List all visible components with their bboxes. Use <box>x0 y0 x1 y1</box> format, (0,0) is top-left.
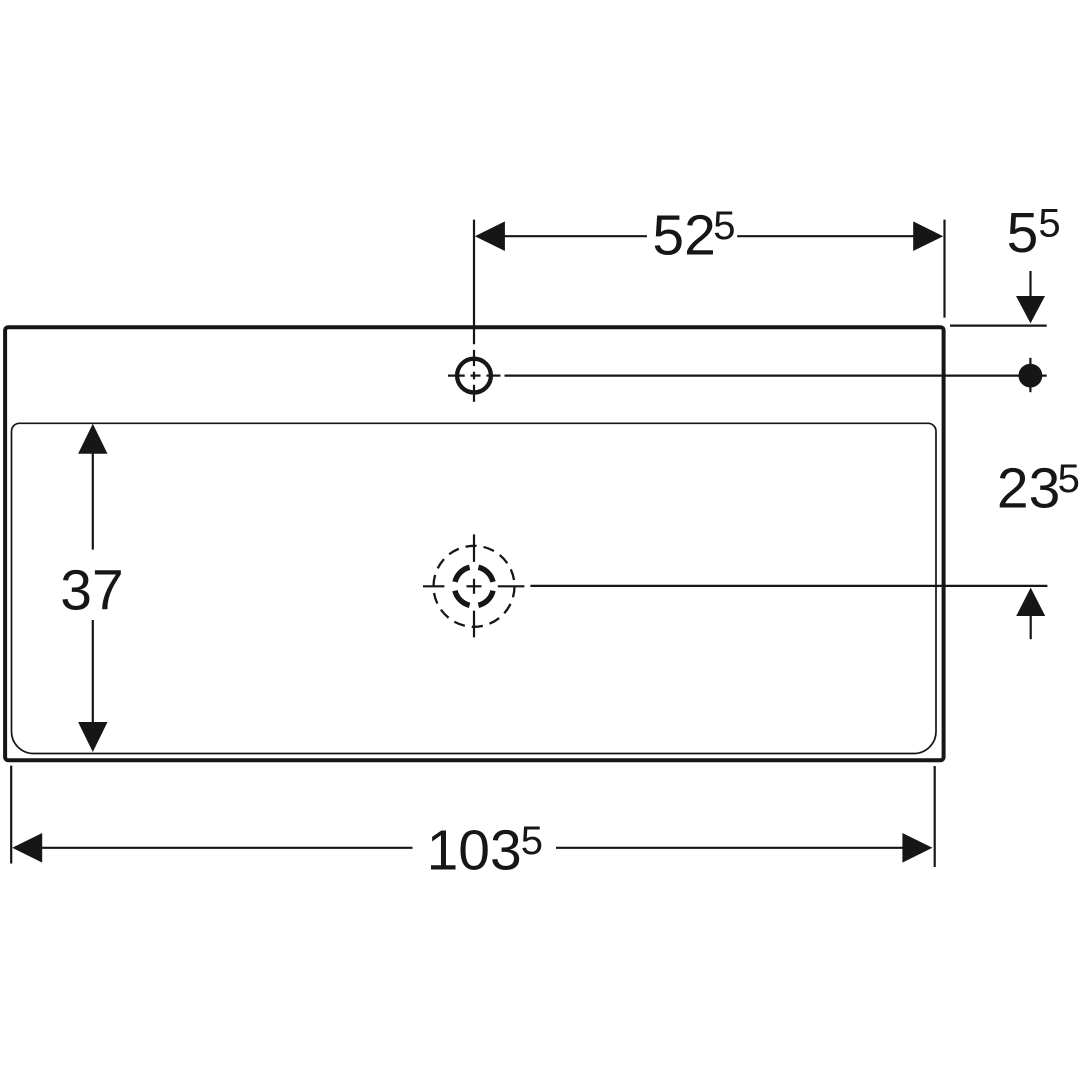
dimension 37 line <box>92 452 94 724</box>
svg-text:52: 52 <box>652 204 715 268</box>
drain outer dashed circle <box>434 546 515 627</box>
basin outer outline <box>5 327 944 760</box>
svg-text:103: 103 <box>427 818 522 882</box>
faucet hole circle <box>457 359 491 393</box>
dimension 5.5 arrow <box>1016 271 1045 323</box>
dimension 103.5 left extension line <box>10 766 12 864</box>
dimension 52.5 line <box>503 235 915 237</box>
dimension 52.5 left extension line (through faucet) <box>943 220 945 318</box>
svg-text:37: 37 <box>60 559 123 623</box>
svg-text:23: 23 <box>997 457 1060 521</box>
svg-text:5: 5 <box>713 204 735 248</box>
dimension 23.5 arrow <box>1016 588 1045 640</box>
dimension 37 label <box>60 559 123 623</box>
dimension 37 down arrow <box>78 722 107 752</box>
drain vertical centerline <box>473 534 475 637</box>
basin inner bowl outline <box>12 423 937 753</box>
dimension 37 up arrow <box>78 424 107 454</box>
svg-text:5: 5 <box>1038 202 1060 246</box>
dimension 52.5 label <box>652 204 735 268</box>
dimension 103.5 right extension line <box>934 766 936 867</box>
dimension 103.5 label <box>427 818 543 882</box>
top edge reference line right <box>950 325 1047 327</box>
faucet axis line to right reference <box>505 375 1047 377</box>
faucet hole horizontal centerline <box>448 375 501 377</box>
dimension 5.5 label <box>1007 201 1061 265</box>
dimension 103.5 right arrow <box>902 833 932 863</box>
svg-text:5: 5 <box>1058 457 1080 501</box>
drain inner circle arcs <box>455 567 493 605</box>
dimension 23.5 label <box>997 457 1080 521</box>
faucet hole vertical centerline <box>473 220 475 402</box>
dimension 52.5 left arrow <box>475 221 505 251</box>
svg-text:5: 5 <box>1007 201 1039 265</box>
dimension 52.5 right arrow <box>913 221 943 251</box>
dimension 103.5 left arrow <box>12 833 42 863</box>
drain axis line to right reference <box>530 585 1047 587</box>
drain horizontal centerline <box>423 585 524 587</box>
reference dot on faucet axis <box>1019 358 1043 392</box>
svg-text:5: 5 <box>521 819 543 863</box>
dimension 103.5 line <box>40 847 904 849</box>
